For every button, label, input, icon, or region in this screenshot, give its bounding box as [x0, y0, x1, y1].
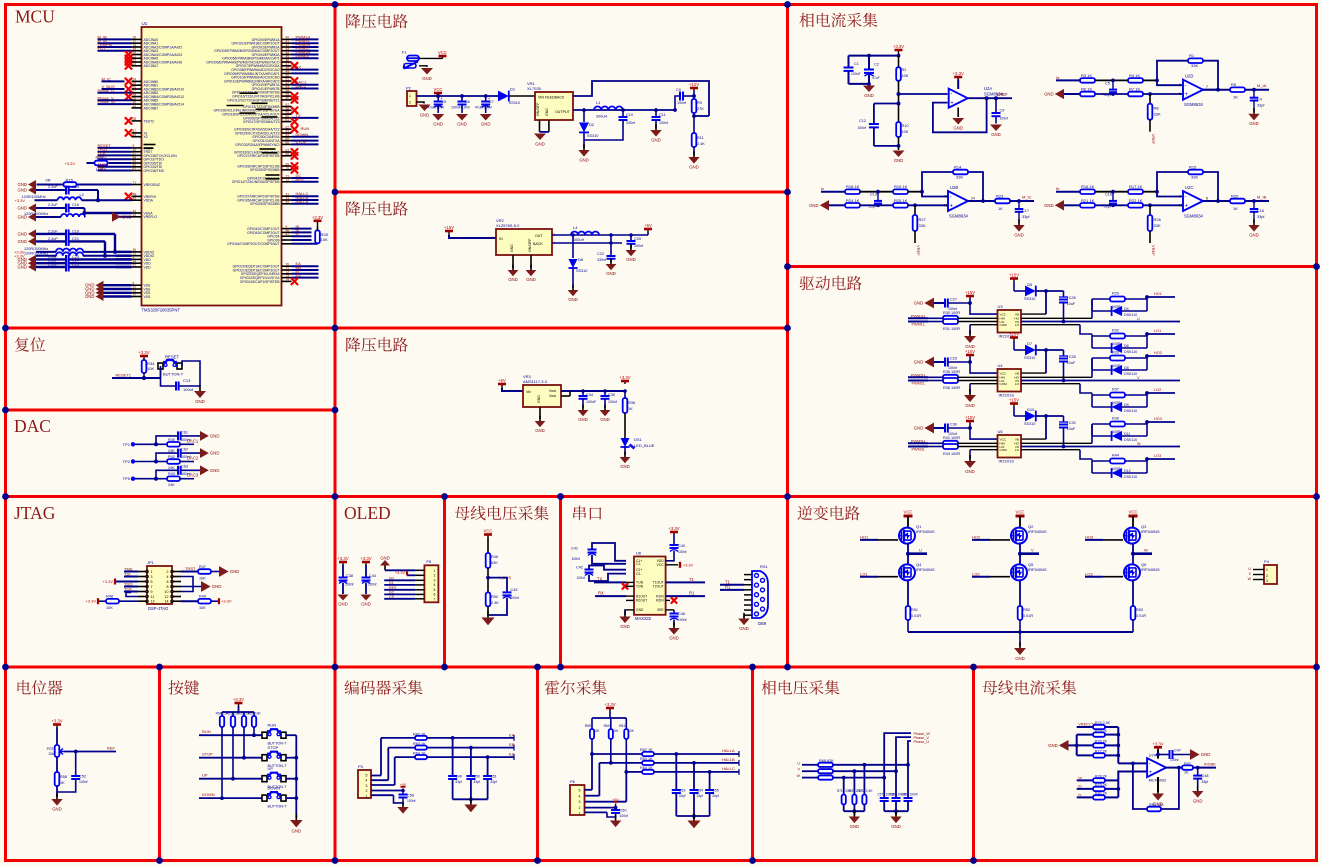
svg-text:33pf: 33pf: [1104, 93, 1112, 97]
svg-text:11: 11: [151, 595, 155, 599]
svg-text:R61: R61: [619, 724, 625, 728]
ground encoder caps: [464, 798, 477, 812]
MCU right pin GPIO14/TZ3/LIN: [232, 89, 292, 95]
svg-text:TP5: TP5: [123, 476, 131, 481]
svg-text:C44: C44: [369, 574, 376, 578]
svg-text:R36: R36: [628, 401, 635, 405]
capacitor C48 33pf: [1193, 768, 1208, 790]
svg-text:T2IN: T2IN: [636, 585, 644, 589]
power flag +3.3V R28: [312, 215, 323, 226]
svg-text:GND: GND: [361, 602, 371, 607]
wire P3 pin1 gnd: [371, 795, 403, 803]
MCU pin ADCINB3: [98, 88, 159, 95]
svg-text:300uH: 300uH: [596, 115, 607, 119]
svg-text:UP: UP: [202, 773, 208, 778]
MCU chip U1 body: [142, 27, 282, 306]
svg-text:0R: 0R: [46, 178, 51, 183]
resistor R22 1K: [1128, 198, 1182, 208]
MCU right pin RES: [232, 177, 319, 184]
net label Phase_U: [914, 740, 930, 744]
svg-text:+3.3V: +3.3V: [233, 697, 244, 702]
svg-text:10K: 10K: [147, 366, 154, 371]
svg-text:+3.3V: +3.3V: [893, 44, 904, 49]
svg-text:33K: 33K: [1191, 63, 1198, 68]
svg-text:STOP: STOP: [202, 752, 213, 757]
svg-text:70: 70: [286, 166, 290, 170]
svg-text:R58: R58: [60, 775, 67, 779]
fuse F1: [402, 50, 419, 61]
net label TRST: [181, 566, 198, 572]
MCU VSS pins with ground arrows: [85, 281, 151, 301]
net label LO2: [1145, 388, 1175, 395]
svg-text:DS1: DS1: [634, 437, 643, 442]
wire HO to pair U5: [1021, 424, 1092, 443]
svg-text:C25: C25: [72, 263, 79, 267]
capacitor C20 100nF: [627, 233, 644, 248]
resistor R28 10K: [315, 226, 328, 244]
resistor R32 100R: [1092, 329, 1147, 347]
capacitor C7 47uF/100V: [475, 96, 494, 127]
net label M_IB: [1252, 195, 1267, 203]
svg-text:GND: GND: [537, 395, 541, 403]
svg-text:TEST2: TEST2: [144, 119, 155, 123]
region title 驱动电路: [800, 276, 862, 291]
transistor Q5 IRF540NS: [1010, 562, 1047, 580]
svg-text:GND: GND: [85, 294, 95, 299]
svg-text:R70 62K: R70 62K: [819, 772, 834, 776]
wire hall top rail: [592, 711, 626, 718]
svg-text:10K: 10K: [321, 237, 328, 242]
capacitor C4 33pf: [1250, 90, 1266, 112]
svg-text:13: 13: [944, 195, 948, 199]
potentiometer POT 10k: [47, 728, 66, 758]
svg-text:C49: C49: [455, 775, 462, 779]
ground C56: [397, 801, 408, 813]
svg-text:R53: R53: [1136, 608, 1143, 612]
svg-text:R55: R55: [227, 712, 233, 716]
svg-text:F1: F1: [402, 50, 407, 55]
svg-text:U: U: [1137, 317, 1140, 321]
capacitor C55 33pf: [705, 770, 719, 816]
wire TMS: [124, 567, 138, 572]
ground R11: [688, 151, 699, 169]
connector P4: [1264, 559, 1277, 584]
svg-text:R18 1K: R18 1K: [846, 184, 860, 189]
resistor R31 100R: [928, 319, 998, 331]
net label TX serial: [594, 577, 634, 583]
power flag +3.3V U2A: [953, 71, 964, 89]
svg-text:GND: GND: [850, 824, 860, 829]
svg-text:C13: C13: [870, 193, 877, 197]
svg-text:33K: 33K: [956, 175, 963, 180]
MCU pin ADCINB1: [132, 82, 159, 88]
svg-text:HO3: HO3: [1085, 535, 1094, 540]
ground U7A: [1152, 777, 1164, 807]
svg-text:V: V: [1031, 548, 1034, 553]
wire output U2B: [968, 197, 995, 202]
capacitor C61 100nf: [178, 430, 200, 442]
svg-text:1K: 1K: [1184, 771, 1189, 775]
diode D4 DSK110: [1092, 297, 1147, 317]
wire keys top rail: [222, 706, 254, 712]
ground C22: [606, 259, 617, 276]
svg-text:JTAG: JTAG: [14, 503, 56, 523]
wire jtag right loop: [181, 577, 193, 592]
resistor R30 100R: [928, 311, 998, 321]
resistor R63 1K: [599, 757, 739, 765]
net label Ia bus-current: [1077, 776, 1093, 781]
svg-text:Vout: Vout: [549, 389, 556, 393]
svg-text:R59: R59: [585, 724, 591, 728]
svg-text:33pf: 33pf: [1202, 780, 1209, 784]
wire VS phase V: [1021, 376, 1180, 381]
svg-text:GPIO17/SPISOMIA/TZ3: GPIO17/SPISOMIA/TZ3: [243, 120, 280, 124]
svg-text:DAC3: DAC3: [187, 473, 199, 478]
resistor R52 0.01R: [1018, 606, 1034, 632]
svg-text:R39: R39: [1112, 417, 1119, 421]
svg-text:Phase_W: Phase_W: [98, 99, 116, 104]
svg-text:R27: R27: [919, 217, 927, 222]
svg-text:CS: CS: [389, 595, 395, 599]
wire C12 tap: [874, 102, 901, 125]
wire riser U: [908, 741, 911, 765]
svg-text:GPIO25/SPISOMIB: GPIO25/SPISOMIB: [250, 168, 280, 172]
svg-text:72: 72: [133, 293, 137, 297]
svg-text:0.01R: 0.01R: [1023, 614, 1033, 618]
capacitor C51 33pf: [483, 755, 497, 799]
svg-text:100nf: 100nf: [572, 557, 581, 561]
capacitor C58: [889, 769, 905, 811]
svg-text:M_IC: M_IC: [1022, 195, 1032, 200]
region title 母线电流采集: [982, 680, 1076, 695]
region title 复位: [15, 337, 45, 352]
svg-text:2: 2: [1266, 574, 1268, 578]
svg-text:IFDBK: IFDBK: [1204, 761, 1216, 766]
MCU right pin GPIO31/CANTXA: [253, 137, 319, 143]
svg-text:R6 1K: R6 1K: [1081, 87, 1092, 92]
svg-text:+12V: +12V: [689, 82, 699, 87]
diode D5 SS310: [1024, 282, 1064, 301]
svg-text:+3.3V: +3.3V: [138, 350, 149, 355]
svg-text:U3: U3: [998, 304, 1004, 309]
svg-text:SS310: SS310: [509, 101, 520, 105]
svg-text:+3.3V: +3.3V: [604, 702, 615, 707]
wire VB rail U4: [1021, 350, 1046, 373]
capacitor C45 100nF: [488, 578, 519, 615]
svg-text:DSK110: DSK110: [1124, 372, 1137, 376]
svg-text:R14: R14: [954, 165, 962, 170]
svg-text:R26: R26: [1154, 217, 1162, 222]
capacitor C32 10uF: [1059, 416, 1076, 448]
svg-text:+: +: [1185, 92, 1189, 98]
svg-text:DOWN: DOWN: [268, 786, 281, 791]
svg-text:HO1: HO1: [1154, 292, 1162, 296]
resistor R50 2.4K: [486, 592, 500, 616]
MCU right pin EA: [233, 261, 319, 268]
junction phase R72: [853, 769, 857, 773]
svg-text:100nf: 100nf: [678, 618, 687, 622]
svg-text:U2D: U2D: [1185, 74, 1193, 79]
ground VR3: [535, 407, 546, 433]
capacitor C47 100nF: [1158, 749, 1190, 763]
svg-text:GND: GND: [669, 635, 679, 640]
svg-text:U7A: U7A: [1149, 753, 1157, 758]
wire serial R2OUT stub: [626, 599, 634, 601]
ground P2: [417, 102, 431, 118]
power flag +3.3V U7A: [1152, 741, 1163, 758]
power bar +3.3V VCC pin: [666, 562, 694, 568]
svg-text:23: 23: [133, 62, 137, 66]
wire VB rail U3: [1021, 291, 1046, 314]
svg-text:C6: C6: [465, 100, 470, 104]
net label V_BUS: [486, 575, 511, 580]
svg-text:+: +: [950, 101, 954, 107]
connector P5 pin stubs: [415, 570, 424, 599]
button S2 BUTTON-T RUN: [262, 723, 287, 746]
wire TP5 branch: [154, 470, 178, 480]
svg-text:IRF540NS: IRF540NS: [1141, 567, 1160, 572]
MCU right pin GPIO24 nc: [240, 278, 298, 285]
svg-text:330nf: 330nf: [597, 258, 606, 262]
svg-text:100nf: 100nf: [608, 400, 617, 404]
op-amp U2C SGM8634: [1179, 185, 1204, 219]
wire ref caps bottom: [849, 82, 871, 86]
wire button STOP right: [286, 756, 298, 760]
wire pot wiper REF: [65, 746, 117, 754]
svg-text:VREGENZ: VREGENZ: [144, 183, 160, 187]
power flag +5V buck2: [644, 223, 652, 235]
svg-text:R4 1K: R4 1K: [1129, 73, 1140, 78]
svg-text:GND: GND: [1015, 656, 1025, 661]
ground U2A: [952, 108, 964, 131]
net label R1 serial right: [666, 591, 705, 597]
svg-text:+15V: +15V: [965, 290, 975, 295]
svg-text:R46: R46: [491, 555, 498, 559]
resistor R59 10K: [585, 718, 601, 754]
resistor R72 2.4K: [848, 771, 864, 811]
svg-text:GND: GND: [914, 360, 924, 365]
svg-text:GND: GND: [457, 122, 467, 127]
svg-text:C61: C61: [181, 430, 188, 434]
svg-text:R44: R44: [1112, 454, 1119, 458]
svg-text:2.4K: 2.4K: [697, 142, 705, 146]
wire VR1 pin gnd loop: [540, 120, 549, 132]
svg-text:L1: L1: [596, 100, 601, 105]
net label Phase_V: [914, 736, 930, 740]
svg-text:R25 1K: R25 1K: [894, 198, 908, 203]
resistor R77 2K: [1077, 750, 1119, 758]
svg-text:100nf: 100nf: [677, 101, 686, 105]
svg-text:RES: RES: [389, 586, 397, 590]
capacitor C1 100nF: [844, 56, 861, 84]
svg-text:IRF540NS: IRF540NS: [1141, 529, 1160, 534]
junction hall R60 row: [609, 761, 613, 765]
wire U2A out VREF: [968, 92, 1012, 100]
resistor R56 10K: [238, 712, 252, 760]
svg-text:P5: P5: [426, 559, 432, 564]
svg-text:120R/100MHz: 120R/100MHz: [22, 195, 46, 199]
wire reset to chip: [160, 369, 162, 378]
wire bus-current plus bundle: [1116, 772, 1146, 798]
MCU right pin TX: [243, 113, 319, 120]
net label VREF vertical R27: [916, 245, 921, 256]
wire riser V: [896, 737, 911, 771]
ground C44: [361, 595, 372, 607]
wire P5 CS: [384, 595, 415, 599]
svg-text:R7 1K: R7 1K: [1129, 87, 1140, 92]
svg-text:VSS: VSS: [144, 295, 152, 299]
MCU right pin Ib: [247, 227, 311, 234]
svg-text:Phase_U: Phase_U: [98, 88, 115, 93]
power flag +15V D10: [1009, 398, 1026, 417]
svg-text:GPIO24/ECAP1/SPISTEB: GPIO24/ECAP1/SPISTEB: [240, 280, 280, 284]
svg-text:U1: U1: [142, 21, 148, 26]
svg-text:GND: GND: [422, 76, 432, 81]
wire phase node V: [1018, 544, 1039, 564]
svg-text:R3 1K: R3 1K: [1081, 73, 1092, 78]
svg-text:66: 66: [286, 141, 290, 145]
svg-text:R40: R40: [168, 438, 175, 442]
MCU right pin EI: [241, 269, 319, 276]
svg-text:GND: GND: [953, 126, 963, 131]
MCU pin ADCINA3: [98, 46, 159, 53]
MCU right pin GPIO11/EPWM6B/: [224, 77, 298, 84]
capacitor C11 100nF: [652, 108, 669, 128]
svg-text:33pf: 33pf: [473, 780, 480, 784]
svg-text:100nf: 100nf: [634, 244, 643, 248]
svg-text:GND: GND: [535, 142, 545, 147]
connector JP1 DSP-JTAG: [147, 560, 172, 611]
svg-text:TMS320F28035PNT: TMS320F28035PNT: [142, 308, 181, 313]
ground C16: [1248, 219, 1259, 237]
svg-text:+C28: +C28: [1067, 355, 1076, 359]
wire minus jog U2C: [1155, 190, 1182, 197]
svg-text:33pf: 33pf: [697, 794, 704, 798]
resistor R20 1K: [1230, 194, 1269, 212]
svg-text:VCC: VCC: [1128, 510, 1137, 515]
svg-text:47uF: 47uF: [872, 76, 880, 80]
wire gate LO2: [972, 571, 1010, 576]
svg-text:LO: LO: [1015, 448, 1020, 452]
svg-text:10uF: 10uF: [1067, 361, 1076, 365]
ground arrow C47: [1190, 749, 1210, 760]
net label EB: [509, 742, 515, 751]
diode D1 SS310: [498, 87, 535, 106]
wire bus-current left vertical: [1075, 735, 1079, 756]
svg-text:DC: DC: [389, 590, 395, 594]
svg-text:+3.3V: +3.3V: [102, 579, 113, 584]
svg-text:2.2uF: 2.2uF: [48, 263, 58, 267]
svg-text:HO3: HO3: [1154, 417, 1162, 421]
svg-text:LO2: LO2: [1154, 388, 1161, 392]
power flag +3.3V C40: [668, 526, 679, 534]
regulator VR2 XL2576S-5.0: [492, 218, 555, 255]
junction C6: [460, 94, 464, 98]
svg-text:100nf: 100nf: [407, 799, 416, 803]
svg-text:R16 1K: R16 1K: [1081, 184, 1095, 189]
capacitor C10 330nF: [584, 108, 635, 140]
svg-text:1: 1: [151, 570, 153, 574]
resistor R41 100R: [928, 436, 998, 446]
svg-text:C57: C57: [877, 793, 883, 797]
svg-text:GND: GND: [195, 399, 205, 404]
ground C60: [610, 815, 621, 827]
MCU pin ADCINA2: [98, 42, 183, 49]
svg-text:ES: ES: [296, 273, 302, 278]
svg-text:R33: R33: [1112, 351, 1119, 355]
wire gate HO3: [1085, 535, 1123, 540]
svg-text:R77 2K: R77 2K: [1095, 750, 1108, 754]
ground U5 COM: [964, 450, 998, 474]
MCU right pin Ic: [267, 231, 311, 238]
svg-text:R24 1K: R24 1K: [846, 198, 860, 203]
net label RX serial: [595, 591, 634, 597]
svg-text:5: 5: [579, 789, 581, 793]
MCU pin VREFLO: [112, 212, 157, 222]
svg-text:68: 68: [286, 152, 290, 156]
MCU right pin HALLB: [237, 195, 318, 202]
power +3.3V jtag left: [102, 579, 138, 585]
svg-text:SGM8634: SGM8634: [1184, 102, 1204, 107]
svg-text:PWM3L: PWM3L: [296, 53, 311, 58]
ground up arrow OLED: [380, 556, 390, 571]
wire P5 D0: [384, 576, 415, 580]
region divider horizontal MCU/reset: [6, 327, 788, 330]
svg-text:10: 10: [165, 590, 169, 594]
svg-text:STOP: STOP: [296, 139, 307, 144]
op-amp U2A SGM8634: [949, 86, 1004, 108]
svg-text:1: 1: [409, 94, 411, 98]
svg-text:R60: R60: [604, 724, 610, 728]
diode D9 DSK110: [1092, 393, 1147, 413]
svg-text:GND: GND: [636, 608, 644, 612]
svg-text:+3.3V: +3.3V: [953, 71, 964, 76]
resistor R6 1K: [1080, 87, 1128, 97]
svg-text:R73: R73: [858, 789, 864, 793]
svg-text:R54: R54: [216, 712, 222, 716]
MCU right pin HALLA: [250, 199, 319, 206]
svg-text:GND: GND: [689, 164, 699, 169]
svg-text:33pf: 33pf: [490, 780, 497, 784]
svg-text:+3.3V: +3.3V: [85, 599, 96, 604]
svg-text:GND: GND: [1014, 232, 1024, 237]
inductor L2 120R/100MHz: [15, 193, 84, 203]
net label RESET above button: [165, 355, 179, 360]
resistor R21 1K: [1080, 198, 1128, 208]
MCU right pin GPIO12/SCITXDA: [227, 96, 297, 103]
resistor R76 2K: [1077, 740, 1119, 748]
svg-text:D1: D1: [389, 581, 394, 585]
power +3.3V R49: [219, 598, 232, 604]
svg-text:BUTTON-T: BUTTON-T: [163, 372, 184, 377]
svg-text:C2: C2: [874, 63, 879, 67]
svg-text:COM: COM: [1000, 382, 1008, 386]
svg-text:W: W: [1248, 577, 1252, 581]
capacitor C27 100nF: [945, 298, 972, 312]
svg-text:R42: R42: [168, 455, 175, 459]
power flag +3.3V buck3: [619, 375, 630, 393]
ground arrow R47: [219, 566, 239, 577]
MCU pin ADCINA6: [126, 58, 183, 65]
svg-text:C7: C7: [489, 100, 494, 104]
ground keys: [290, 814, 303, 834]
svg-text:LO: LO: [1015, 382, 1020, 386]
diode D12 DSK110: [1092, 459, 1147, 479]
transistor Q3 IRF540NS: [1123, 524, 1160, 544]
svg-text:D1: D1: [510, 87, 516, 92]
svg-text:R19 1K: R19 1K: [894, 184, 908, 189]
svg-text:R21 1K: R21 1K: [1081, 198, 1095, 203]
